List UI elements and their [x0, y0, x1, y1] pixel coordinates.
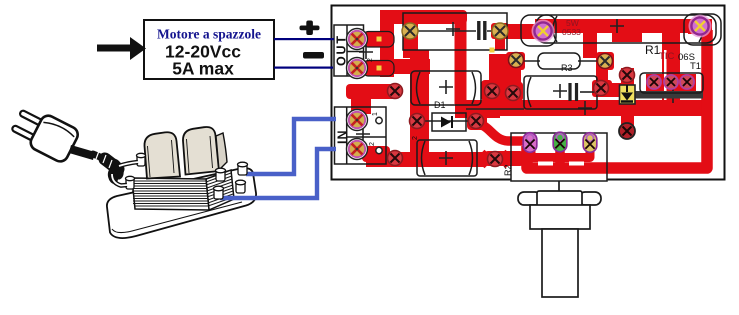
wire: plus lead to OUT1 — [274, 38, 334, 40]
wire: red behind T1 pads — [646, 74, 696, 94]
pad: C1 left — [388, 84, 403, 99]
pad: C2 left — [388, 151, 403, 166]
transformer base plate — [107, 168, 256, 238]
node: yellow via at V5 — [490, 48, 495, 53]
transformer core front lamination stack — [132, 178, 209, 210]
wire: vertical trace V2 — [403, 10, 418, 58]
pad: R1 left big pad — [532, 20, 555, 43]
capacitor C3 lead — [580, 91, 596, 93]
node: cross at R1 center — [610, 19, 624, 33]
wire: minus lead to OUT2 — [274, 67, 333, 69]
svg-text:R2: R2 — [503, 164, 513, 176]
PCB board background — [332, 6, 726, 182]
transformer coil 2 side face — [216, 133, 227, 170]
wire: vertical drop to OUT terminal 1 — [380, 10, 394, 77]
wire: IN2 stub — [362, 146, 390, 162]
wire: long vertical V3 through caps — [410, 50, 429, 162]
wire: lead to transformer upper terminal — [119, 162, 138, 166]
pot bushing — [530, 205, 590, 229]
node: cross at IN block — [356, 127, 370, 141]
pad: OUT terminal 1 — [347, 29, 368, 50]
resistor R3 leads — [520, 60, 601, 62]
svg-text:2: 2 — [369, 142, 376, 146]
wire: top copper trace from OUT+ to C area — [346, 10, 712, 168]
node: free hole 1 in IN block — [376, 117, 382, 123]
svg-text:5A max: 5A max — [172, 59, 234, 79]
thyristor T1 outline — [640, 73, 703, 93]
wire: elbow from IN1 to C1 left pad — [346, 84, 396, 99]
resistor R3 outline — [538, 53, 580, 69]
node: cross at T1 center — [666, 89, 680, 103]
pad: pot R2 pin 2 — [553, 132, 567, 152]
node: yellow via at OUT2 stub — [377, 66, 382, 71]
motor arrow — [97, 37, 146, 60]
plug pin 2 — [11, 125, 37, 142]
component outlines — [334, 13, 721, 181]
wire: pad square near cap3 right lead — [592, 80, 612, 97]
svg-text:1: 1 — [372, 112, 379, 116]
node: yellow via at OUT1 stub — [377, 37, 382, 42]
svg-text:2: 2 — [412, 136, 419, 140]
wire: band Q horizontal mid-right — [490, 100, 704, 116]
diode D1 symbol — [441, 117, 451, 128]
wire: red square at ceramic cap right pad — [491, 23, 509, 39]
wire: bottom band through C2 — [366, 152, 485, 167]
pad: ceramic cap right — [492, 23, 508, 39]
node: cross on band Q — [578, 101, 592, 115]
capacitor C3 plates — [570, 83, 577, 101]
plus symbol — [300, 21, 320, 36]
wire: V7 vertical from R1 area to T1 — [662, 33, 680, 103]
pad: C3 left — [506, 86, 521, 101]
pad: SCR gate top — [620, 68, 635, 83]
pad: D1 anode — [410, 114, 425, 129]
wire: red square at R1 right pad — [688, 19, 712, 34]
wire: OUT pad 2 stub — [362, 61, 394, 77]
wire: diamond accents at C2 right pad — [475, 150, 493, 168]
svg-text:2: 2 — [367, 58, 374, 62]
PCB border — [332, 6, 725, 180]
transformer coil 1 — [144, 132, 180, 178]
pot locating stem — [558, 181, 560, 192]
pad outline at R1 right big pad — [684, 14, 721, 45]
pad: R1 right big pad — [689, 15, 712, 38]
pot hex nut — [518, 192, 541, 205]
wire: blue mains wire 1 to IN1 — [246, 119, 336, 174]
terminal block IN outline — [335, 107, 387, 164]
svg-text:0533: 0533 — [562, 27, 581, 37]
pads — [347, 15, 712, 167]
svg-text:T1: T1 — [690, 61, 701, 72]
node: cross at OUT block — [359, 45, 373, 59]
pad: C3 right — [594, 81, 609, 96]
potentiometer R2 body fill — [511, 133, 607, 181]
capacitor C ceramic plates — [479, 21, 485, 40]
wire: trace to big pad of R1 — [505, 24, 548, 39]
pad: IN terminal 2 — [347, 139, 368, 160]
transformer coil top slivers — [155, 127, 204, 134]
terminal OUT wire clamp outlines — [363, 32, 395, 48]
wire: D1 right pad square — [467, 112, 487, 130]
pad: OUT terminal 2 — [347, 58, 368, 79]
wire: R3 left pad square — [506, 52, 525, 70]
terminal block OUT outline — [334, 25, 364, 76]
pad: pot R2 pin 3 — [583, 133, 597, 153]
diode D1 leads — [419, 120, 476, 122]
wire: OUT pad 1 stub — [362, 32, 394, 48]
minus symbol — [303, 52, 324, 59]
pad: ceramic cap left — [402, 23, 418, 39]
svg-text:IN: IN — [336, 130, 350, 145]
potentiometer R2 hardware — [518, 181, 601, 297]
pad: IN terminal 1 — [347, 110, 368, 131]
wire: vertical V9 through zener to gate pad — [621, 68, 634, 128]
wire: blue mains wire 2 to IN2 — [220, 149, 336, 198]
wire: pot nest bar1 pad1-pad3 — [531, 146, 590, 158]
transformer coil 2 — [183, 127, 219, 174]
wire: V6 under R1 to R3 right pad — [583, 33, 597, 58]
node: cross at C2 center — [439, 151, 453, 165]
pot shaft — [542, 229, 578, 297]
svg-text:TIC: TIC — [659, 51, 674, 62]
pad: C1 right — [485, 84, 500, 99]
node: free hole 2 in IN block — [376, 147, 382, 153]
wire: lead line in band Q — [466, 108, 524, 110]
pad: R3 left — [509, 53, 524, 68]
zener/diode symbol component (yellow) at SCR gate — [620, 85, 636, 104]
svg-text:Motore a spazzole: Motore a spazzole — [157, 27, 261, 42]
silkscreen texts — [335, 18, 702, 176]
dark tab bar of T1 — [634, 91, 703, 99]
pad: T1 pin 3 — [680, 75, 694, 89]
white separation gaps in copper — [644, 34, 662, 43]
node: cross at C3 center — [553, 84, 567, 98]
transformer terminal screws right — [214, 162, 248, 199]
plug body — [28, 113, 80, 164]
svg-text:R3: R3 — [561, 63, 573, 73]
wire: ceramic cap C lead line — [418, 30, 500, 32]
diode D1 outline — [432, 113, 466, 131]
wire: R3 right pad square — [596, 52, 614, 70]
pad: T1 pin 1 — [647, 75, 661, 89]
svg-text:D1: D1 — [434, 100, 446, 110]
wire: copper gap notches in pot nest — [538, 162, 553, 166]
resistor R1 outline — [536, 15, 716, 43]
svg-text:OUT: OUT — [335, 34, 349, 66]
capacitor C2 outline — [417, 140, 477, 176]
node: cross at C1 center — [439, 80, 453, 94]
capacitor C1 outline — [411, 71, 481, 105]
potentiometer R2 body outline — [511, 133, 607, 181]
pad: pot R2 pin 1 — [523, 133, 537, 153]
wire: vertical trace V4 — [455, 12, 467, 104]
node: cross at C origin — [446, 22, 460, 36]
mains cable — [69, 145, 95, 160]
pad: D1 cathode — [469, 114, 484, 129]
pad outline at R1 left big pad — [521, 15, 556, 46]
transformer TR1 — [107, 119, 336, 238]
mains plug — [8, 103, 138, 185]
wire: H2 horizontal from OUT2 — [383, 59, 430, 74]
pad: SCR gate bottom — [619, 123, 635, 139]
wire: pot pad2 drop — [476, 124, 560, 165]
wire: junction near C1 right pad — [481, 80, 520, 101]
capacitor C3 outline — [524, 76, 597, 109]
wire: lead to transformer lower terminal — [112, 174, 127, 186]
component lead lines and origin crosses — [356, 19, 680, 165]
wire: cap3 left pad square — [505, 82, 523, 101]
wire: R1 band across resistor body — [535, 19, 697, 33]
motor label box — [144, 20, 274, 79]
pad: T1 pin 2 — [664, 75, 678, 89]
pad: R3 right — [598, 54, 613, 69]
relay/bridge outline — [403, 13, 507, 50]
transformer terminal screws left — [126, 153, 146, 189]
pad: C2 right — [488, 152, 503, 167]
plug pin 1 — [19, 110, 45, 127]
wire: C2 right pad square and link to pot — [484, 151, 524, 166]
wire: pot nest outer from pad1 — [527, 30, 707, 168]
transformer core right face — [206, 170, 234, 210]
